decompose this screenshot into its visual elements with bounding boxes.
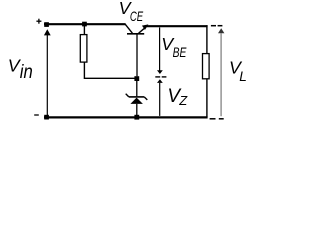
svg-text:BE: BE xyxy=(173,45,187,60)
svg-text:Z: Z xyxy=(178,93,188,108)
svg-text:CE: CE xyxy=(130,8,144,24)
svg-text:in: in xyxy=(20,62,33,83)
svg-text:L: L xyxy=(239,69,247,84)
